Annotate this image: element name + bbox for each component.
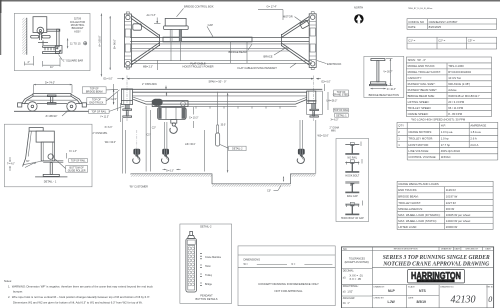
svg-text:W2= 52.6": W2= 52.6" [318,135,329,138]
svg-text:DETAIL-2: DETAIL-2 [232,148,243,151]
svg-text:bumper.: bumper. [13,290,23,294]
svg-text:G= 17.4": G= 17.4" [267,5,277,9]
dim A=100.0 vertical [100,14,102,77]
rail block left [125,105,129,109]
cross arm [38,41,48,46]
svg-text:NOT FOR APPROVAL: NOT FOR APPROVAL [274,289,302,293]
bottom cells [372,285,487,308]
svg-text:(EXCEPT AS NOTED):: (EXCEPT AS NOTED): [345,261,370,264]
svg-text:SCALE:: SCALE: [408,286,416,289]
svg-text:60# ASCE (2.38"): 60# ASCE (2.38") [448,82,470,86]
svg-text:C1*: C1* [147,133,151,136]
span dim [127,78,314,80]
svg-text:C2* =: C2* = [438,38,445,42]
festoon track under beam [152,105,297,107]
svg-text:Y= 11.3": Y= 11.3" [100,116,109,119]
svg-text:DATE: DATE [408,25,415,29]
bottom bar [43,52,60,54]
svg-text:MAX. WHEEL LOAD (DYNAMIC):: MAX. WHEEL LOAD (DYNAMIC): [398,213,440,217]
svg-text:DATE:: DATE: [408,296,414,299]
right end truck (elevation) [307,91,323,114]
svg-text:W1= 64.0": W1= 64.0" [105,141,116,144]
svg-text:S= 6.3": S= 6.3" [166,169,174,172]
svg-text:SPAN = 50' - 0": SPAN = 50' - 0" [209,80,227,84]
svg-text:C3*: C3* [267,189,271,192]
svg-text:42130: 42130 [451,295,476,306]
svg-text:DRAWN BY: DRAWN BY [441,248,452,251]
svg-text:MISCELLANEOUS:: MISCELLANEOUS: [398,207,423,211]
svg-text:*BY CUSTOMER: *BY CUSTOMER [130,186,149,189]
top of rail box [89,110,110,114]
svg-text:30.0': 30.0' [221,123,227,126]
right braces [281,17,309,66]
svg-text:RUNWAY RAIL SIZE*:: RUNWAY RAIL SIZE*: [408,82,436,86]
I-beam section [371,59,385,61]
svg-text:NORTH: NORTH [354,6,363,10]
svg-text:CHKED BY:: CHKED BY: [374,297,385,299]
svg-text:11 TO 15: 11 TO 15 [70,41,81,45]
svg-text:CONFIG NO: CONFIG NO [408,20,425,24]
detail box border [14,13,90,70]
svg-text:MODEL TROLLEY/HOIST:: MODEL TROLLEY/HOIST: [408,70,441,74]
svg-text:HOIST/TROLLEY POWER: HOIST/TROLLEY POWER [183,65,214,69]
svg-text:REV. NO.: REV. NO. [487,287,495,289]
svg-text:DETAIL-2: DETAIL-2 [200,225,212,229]
beam top flange and cap [121,88,322,90]
svg-text:E1= 6.0": E1= 6.0" [104,77,113,80]
svg-text:FLAT CABLE ROVING PENDANT: FLAT CABLE ROVING PENDANT [238,66,278,70]
svg-text:20000 lbf: 20000 lbf [446,225,458,229]
revision strip [439,247,483,251]
hook 2 [162,149,169,164]
svg-text:DRAWN BY:: DRAWN BY: [374,286,386,289]
svg-text:HOOK BOLT: HOOK BOLT [345,174,359,177]
svg-text:CAPACITY:: CAPACITY: [408,76,423,80]
svg-text:B= 90.0": B= 90.0" [112,39,116,49]
svg-text:±0. 1/32": ±0. 1/32" [343,290,353,293]
svg-text:1.0 hp ea.: 1.0 hp ea. [441,130,454,134]
svg-text:1" SQUARE BAR: 1" SQUARE BAR [63,59,83,63]
main title [382,254,490,268]
svg-text:BRIDGE BEAM SECTION: BRIDGE BEAM SECTION [369,93,399,97]
svg-text:X= 6.3": X= 6.3" [105,126,113,129]
svg-text:Lift= 30.0': Lift= 30.0' [185,143,196,146]
svg-text:20 / 3.3 FPM: 20 / 3.3 FPM [448,100,465,104]
svg-text:ASSY: ASSY [74,30,81,33]
svg-text:DATE: DATE [455,248,461,251]
svg-text:BRACE: BRACE [264,54,273,58]
svg-text:CRANE MOTORS:: CRANE MOTORS: [408,130,432,134]
left end truck (elevation) [121,89,132,105]
no rail section [345,145,359,155]
svg-text:±0. 1°: ±0. 1° [343,302,350,305]
bridge beam plan lines [130,37,309,39]
svg-text:Trolley: Trolley [205,274,213,277]
svg-text:Advise: Advise [448,88,457,92]
hook bolt section [345,163,359,173]
svg-text:17.7 hp: 17.7 hp [441,143,451,147]
trolley motor dark [152,99,162,106]
svg-text:8/20/2025: 8/20/2025 [429,25,442,29]
ground line with hatch [131,174,316,184]
motor right [300,20,310,29]
svg-text:DATE: DATE [486,248,492,251]
beam lower edge pair [130,47,290,49]
svg-text:MB= 2.3": MB= 2.3" [143,65,153,68]
small step dim [283,177,285,182]
svg-text:MIN.: MIN. [331,129,336,132]
svg-text:FRACTIONAL:: FRACTIONAL: [343,285,359,288]
svg-text:LINE VOLTAGE:: LINE VOLTAGE: [408,149,429,153]
flat cable festoon track [130,60,312,62]
svg-text:1129 lbf: 1129 lbf [446,188,456,192]
config table [407,19,497,30]
svg-text:CONTROL VOLTAGE:: CONTROL VOLTAGE: [408,155,436,159]
wheels [28,102,37,111]
svg-text:CRANE SPEED:: CRANE SPEED: [408,112,429,116]
svg-text:±0.: ±0. [343,276,347,279]
hoist body [157,107,186,119]
rail line [14,110,90,112]
ropes to hooks [136,130,138,149]
svg-text:NO.: NO. [343,248,348,251]
svg-text:REVISION DESCRIPTION: REVISION DESCRIPTION [394,249,418,251]
dim 2" [25,63,34,65]
svg-text:ANGULAR:: ANGULAR: [343,297,356,300]
svg-text:2" OSHA MIN.: 2" OSHA MIN. [142,83,158,86]
svg-text:DIMENSIONS: DIMENSIONS [244,257,261,261]
left end truck (plan) [124,14,131,67]
motors table [397,122,498,160]
svg-text:TOP OF RAIL: TOP OF RAIL [334,109,349,112]
svg-text:460V-3ph-60Hz: 460V-3ph-60Hz [441,149,461,153]
svg-text:66 / 11 FPM: 66 / 11 FPM [448,106,464,110]
svg-text:10 US Ton: 10 US Ton [448,76,461,80]
pendant cable and pendant [217,92,219,125]
svg-text:30°: 30° [26,160,30,163]
collector circle [37,27,44,34]
collector body rect [33,17,47,33]
dim 11 TO 15 [67,38,69,48]
svg-text:1.0 hp: 1.0 hp [441,137,449,141]
svg-text:BRIDGE BEAM:: BRIDGE BEAM: [398,195,418,199]
svg-text:X.X = .05: X.X = .05 [349,277,361,281]
svg-text:2.6 A: 2.6 A [470,137,477,141]
svg-text:TOP OF RAIL: TOP OF RAIL [91,111,106,114]
svg-text:A KONECRANES GROUP COMPANY: A KONECRANES GROUP COMPANY [419,280,453,283]
hatched wall [22,18,27,55]
truck-to-rail wedge 30deg [23,161,44,168]
svg-text:LJW: LJW [388,300,396,304]
svg-text:END TRUCK: END TRUCK [89,102,103,105]
cap rect [163,37,252,42]
svg-text:HOIST MOTOR:: HOIST MOTOR: [408,143,429,147]
screen frame: left edge line [0,0,1,13]
trolley [152,101,188,107]
truck frame [33,94,71,97]
HARRINGTON logo [408,270,465,283]
svg-text:F= 10.3": F= 10.3" [387,88,396,91]
beam bottom flange with notched ends [133,97,307,101]
DETAIL-2 label box [229,146,247,150]
svg-text:C3* =: C3* = [468,38,475,42]
svg-text:8/5/19: 8/5/19 [417,300,427,304]
hook 1 [133,149,140,164]
hook 3 [297,149,304,164]
svg-text:C1* =: C1* = [408,38,415,42]
svg-text:TMS-3-1060: TMS-3-1060 [448,64,464,68]
svg-text:SPAN: 50' - 0": SPAN: 50' - 0" [408,58,426,62]
svg-text:0: 0 [488,295,492,304]
svg-text:DECIMAL:: DECIMAL: [343,269,355,272]
beam seat I-section [47,95,56,97]
svg-text:X= 1.3": X= 1.3" [69,150,77,153]
dim verticals [113,84,115,92]
svg-text:10197 lbf: 10197 lbf [446,195,458,199]
svg-text:V= 30.7": V= 30.7" [383,70,392,73]
svg-text:ENDTRUCK: ENDTRUCK [327,62,342,66]
svg-text:BRIDGE CONTROL BOX: BRIDGE CONTROL BOX [184,5,214,9]
right end truck (plan) [309,14,316,68]
top of rail label [69,159,88,163]
left braces [131,16,159,66]
svg-text:115VAC: 115VAC [441,155,451,159]
svg-text:1.8 A ea.: 1.8 A ea. [470,130,481,134]
collector comb [43,46,56,48]
C1 C2 C3 table [407,37,497,49]
svg-text:1. WARNING: Dimension 'WF' is: 1. WARNING: Dimension 'WF' is negative, … [8,284,153,288]
svg-text:BRIDGE BEAM SIZE:: BRIDGE BEAM SIZE: [408,94,435,98]
runway beam section left [123,109,132,110]
dims C1 C2 [145,106,147,172]
svg-text:CRANEASSY-1373597: CRANEASSY-1373597 [429,20,458,24]
dim 11" [43,64,60,66]
posts mid-span [230,42,232,64]
svg-text:AL= 5.3": AL= 5.3" [147,14,156,17]
svg-text:C= 10.3": C= 10.3" [189,116,198,119]
svg-text:NOTCHED CRANE APPROVAL DRAWING: NOTCHED CRANE APPROVAL DRAWING [382,261,489,268]
hook block under hoist [171,120,177,124]
svg-text:N =: N = [292,263,296,266]
svg-text:DRAWING NO.: DRAWING NO. [440,286,454,289]
svg-text:Hoist: Hoist [205,265,211,268]
bumpers [18,103,22,107]
svg-text:W =: W = [244,263,249,266]
rail cap section [345,183,359,193]
svg-text:A= 100.0": A= 100.0" [97,35,101,46]
rail block right [312,104,316,110]
svg-text:NLP: NLP [388,289,396,293]
svg-text:RAIL CAP: RAIL CAP [347,195,358,198]
svg-text:*NO LOAD HIGH SPEED (HOIST): 3: *NO LOAD HIGH SPEED (HOIST): 30 FPM [411,118,466,122]
bridge motor left [133,24,142,30]
svg-text:CRANE WEIGHTS AND LOADS: CRANE WEIGHTS AND LOADS [398,182,439,186]
svg-text:X= 6.3": X= 6.3" [331,119,339,122]
svg-text:T= 4.0": T= 4.0" [7,162,15,165]
svg-text:CHECKED BY: CHECKED BY [465,249,479,251]
pendant top cable [190,231,193,235]
svg-text:CONCEPT DRAWING FOR REFERENCE: CONCEPT DRAWING FOR REFERENCE ONLY [258,282,319,286]
svg-text:BRIDGE BEAM: BRIDGE BEAM [86,91,103,94]
horizontal pipe [47,29,60,31]
svg-text:CRANE STEEL: CRANE STEEL [333,94,350,97]
svg-text:CAP: CAP [208,23,214,27]
svg-text:LIFTING SPEED:: LIFTING SPEED: [408,100,430,104]
svg-text:BUTTON DETAILS: BUTTON DETAILS [196,297,218,301]
button group labels [200,254,202,259]
svg-text:2": 2" [28,60,30,64]
screen frame: top dark bar [0,0,500,2]
svg-text:BRIDGE BEAM: BRIDGE BEAM [229,50,247,54]
svg-text:2227 lbf: 2227 lbf [446,201,456,205]
svg-text:H.P.: H.P. [441,124,446,128]
svg-text:8 - 80 FPM: 8 - 80 FPM [448,112,463,116]
svg-text:RUNWAY BEAM SIZE*:: RUNWAY BEAM SIZE*: [408,88,438,92]
svg-text:300 lbf: 300 lbf [446,207,455,211]
svg-text:TRSG_RY_10_SG_30_460vac: TRSG_RY_10_SG_30_460vac [408,8,433,10]
svg-text:2" OSHA MIN.: 2" OSHA MIN. [93,132,109,135]
svg-text:14023 lbf per wheel: 14023 lbf per wheel [446,219,471,223]
svg-text:END TRUCKS:: END TRUCKS: [398,188,417,192]
svg-text:10925 lbf per wheel: 10925 lbf per wheel [446,213,471,217]
dim B=90.0 vertical [109,16,111,70]
top of bridge beam box [82,87,106,93]
dim F=10.3 [370,88,385,90]
svg-text:NO RAIL: NO RAIL [348,157,358,160]
runway beam section right [310,109,319,110]
bottom of guide roller label [66,166,88,173]
svg-text:D= 74.0": D= 74.0" [45,81,55,85]
svg-text:HOOK BOLT W/ CAP: HOOK BOLT W/ CAP [341,217,364,220]
svg-text:MOTOR: MOTOR [283,14,293,18]
tolerances column [371,247,373,308]
dim V=30.7 [389,59,391,86]
buttons two columns [188,247,194,286]
pendant body [186,238,197,292]
svg-text:Z= Ø6.94": Z= Ø6.94" [46,114,58,118]
bracket block [55,46,62,54]
hook bolt w/cap section [345,205,359,215]
feet [31,35,39,38]
svg-text:TROLLEY/HOIST:: TROLLEY/HOIST: [398,201,421,205]
truck corner profile [29,128,43,132]
label 52709 collector mounting bracket assy [70,18,85,34]
svg-text:2. Wire rope hoist is not tru: 2. Wire rope hoist is not true vertical … [8,295,150,299]
svg-text:MODEL END TRUCK:: MODEL END TRUCK: [408,64,436,68]
bridge control box [165,18,186,26]
guide roller [48,154,53,159]
svg-text:GUIDE ROLLER: GUIDE ROLLER [68,169,86,172]
svg-text:TROLLEY SPEED:: TROLLEY SPEED: [408,106,432,110]
svg-text:DETAIL-1: DETAIL-1 [336,114,347,117]
svg-text:Bridge: Bridge [205,283,213,286]
svg-text:AMPERAGE: AMPERAGE [470,124,486,128]
svg-text:11": 11" [50,65,54,69]
svg-text:RYU100C30HD04: RYU100C30HD04 [448,70,471,74]
top of end truck box [87,98,106,105]
crane weights and loads table [397,181,493,229]
svg-text:NTS: NTS [419,289,427,293]
svg-text:TROLLEY MOTOR:: TROLLEY MOTOR: [408,137,433,141]
svg-text:C2*: C2* [152,126,156,129]
svg-text:QTY: QTY [398,124,404,128]
spec table [406,57,491,122]
svg-text:W30X148 w/ MC18X42.7: W30X148 w/ MC18X42.7 [448,94,480,98]
svg-text:Notes:: Notes: [4,279,12,283]
svg-text:E2= 6.0": E2= 6.0" [322,80,331,83]
svg-text:MAX. WHEEL LOAD (STATIC):: MAX. WHEEL LOAD (STATIC): [398,219,437,223]
svg-text:Crane Mainline: Crane Mainline [205,256,222,259]
rail I-beam [43,160,63,162]
svg-text:24.0 A: 24.0 A [470,143,478,147]
svg-text:Dimensions W1 and W2 are given: Dimensions W1 and W2 are given for botto… [13,300,143,304]
svg-text:LIFTED LOAD:: LIFTED LOAD: [398,225,417,229]
svg-text:TOP OF RAIL: TOP OF RAIL [71,160,86,163]
vertical pipe [57,29,59,47]
svg-text:DETAIL - 1: DETAIL - 1 [44,180,57,184]
